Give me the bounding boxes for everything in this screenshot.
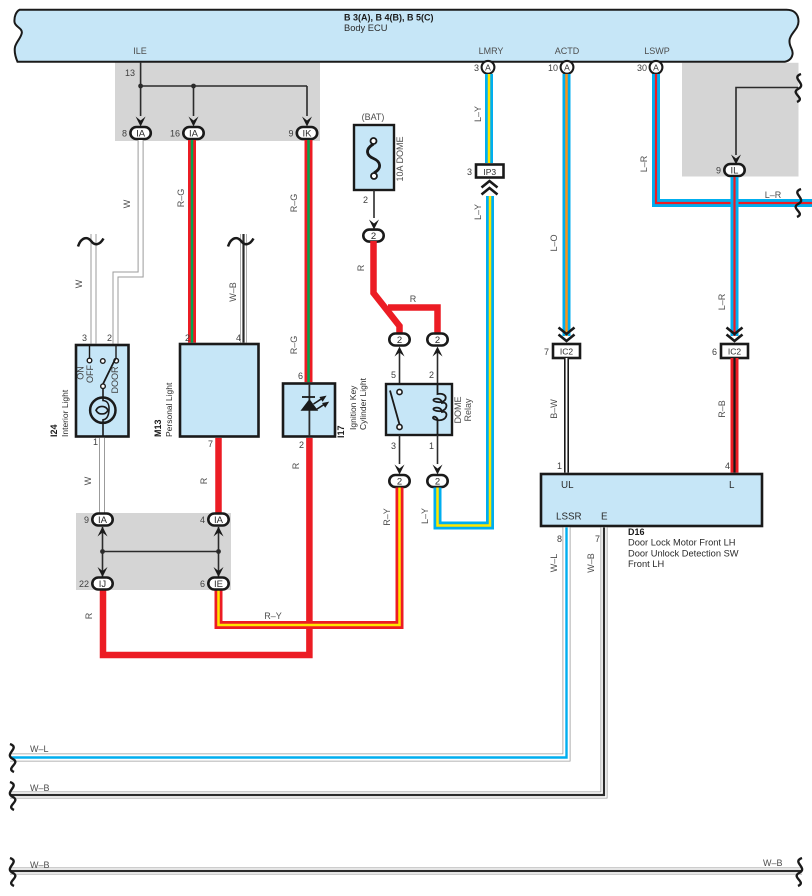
svg-text:7: 7 xyxy=(208,439,213,449)
junction block shading bottom-left xyxy=(76,513,231,590)
thick wire R from fuse to relay connectors xyxy=(374,241,400,333)
svg-text:22: 22 xyxy=(79,579,89,589)
wire ILE bus xyxy=(141,62,307,116)
svg-text:10: 10 xyxy=(548,63,558,73)
connector 2 relay pin3 xyxy=(389,475,409,487)
svg-text:W–L: W–L xyxy=(549,554,559,573)
svg-text:L–R: L–R xyxy=(765,190,782,200)
svg-text:A: A xyxy=(485,63,491,73)
svg-text:16: 16 xyxy=(170,129,180,139)
chevron into IC2(7) xyxy=(559,328,575,342)
wire B-W IC2 to D16 pin1 xyxy=(564,358,569,473)
svg-text:L–O: L–O xyxy=(549,234,559,251)
svg-text:Cylinder Light: Cylinder Light xyxy=(358,377,368,430)
svg-text:W–B: W–B xyxy=(30,860,50,870)
svg-text:13: 13 xyxy=(125,68,135,78)
connector IP3 xyxy=(476,165,504,178)
relay switch contacts xyxy=(397,389,402,394)
connector 2 below fuse xyxy=(363,230,383,242)
svg-text:I17: I17 xyxy=(336,425,346,438)
svg-text:IC2: IC2 xyxy=(560,347,574,357)
svg-text:R–Y: R–Y xyxy=(382,508,392,526)
Body ECU band xyxy=(14,10,798,62)
svg-text:7: 7 xyxy=(544,347,549,357)
M13 personal light xyxy=(180,344,259,437)
svg-text:OFF: OFF xyxy=(85,365,95,383)
svg-text:L–R: L–R xyxy=(639,155,649,172)
svg-text:D16: D16 xyxy=(628,527,645,537)
svg-text:2: 2 xyxy=(299,440,304,450)
break symbol top right xyxy=(796,74,801,102)
svg-text:2: 2 xyxy=(397,476,402,487)
svg-text:1: 1 xyxy=(429,441,434,451)
svg-text:ACTD: ACTD xyxy=(555,46,580,56)
svg-text:A: A xyxy=(564,63,570,73)
thick wire R from M13 pin7 to IA(4) xyxy=(215,438,222,514)
svg-text:2: 2 xyxy=(363,195,368,205)
svg-text:ILE: ILE xyxy=(133,46,147,56)
connector IC2 pin 7 xyxy=(553,344,580,358)
fuse element symbol xyxy=(367,144,379,173)
svg-text:2: 2 xyxy=(107,333,112,343)
svg-text:IA: IA xyxy=(98,515,108,526)
svg-text:R–Y: R–Y xyxy=(264,611,282,621)
connector IE pin 6 xyxy=(208,578,228,590)
connector IA pin 16 xyxy=(183,127,203,139)
svg-text:7: 7 xyxy=(595,534,600,544)
svg-text:Body ECU: Body ECU xyxy=(344,23,387,33)
svg-text:8: 8 xyxy=(557,534,562,544)
svg-text:2: 2 xyxy=(185,333,190,343)
svg-text:A: A xyxy=(653,63,659,73)
svg-text:2: 2 xyxy=(429,370,434,380)
svg-text:10A DOME: 10A DOME xyxy=(395,136,405,181)
I24 interior light switch xyxy=(76,345,129,437)
connector IK pin 9 xyxy=(297,127,317,139)
connector IA pin 9 xyxy=(92,514,112,526)
svg-text:6: 6 xyxy=(712,347,717,357)
connector IC2 pin 6 xyxy=(721,344,748,358)
connector 2 relay pin2 xyxy=(427,334,447,346)
svg-text:IL: IL xyxy=(731,166,739,177)
svg-text:W–B: W–B xyxy=(763,858,783,868)
svg-text:3: 3 xyxy=(391,441,396,451)
wire R-G from IK9 to I17 pin6 xyxy=(305,140,313,382)
D16 door lock motor xyxy=(541,474,762,526)
chevron into IP3 xyxy=(482,181,498,195)
relay DOME xyxy=(386,384,452,435)
svg-text:DOME: DOME xyxy=(453,397,463,424)
break symbol bottom left xyxy=(10,858,15,886)
svg-text:3: 3 xyxy=(474,63,479,73)
svg-text:L–Y: L–Y xyxy=(473,106,483,122)
svg-text:R–G: R–G xyxy=(289,194,299,213)
LED symbol I17 xyxy=(308,384,310,437)
svg-text:LMRY: LMRY xyxy=(479,46,504,56)
I17 ignition key cylinder light xyxy=(283,384,335,437)
svg-text:UL: UL xyxy=(561,480,574,491)
wire W into I24 pin3 xyxy=(91,234,97,344)
wire W-B into M13 pin4 xyxy=(240,234,247,343)
svg-text:W: W xyxy=(83,476,93,485)
svg-text:2: 2 xyxy=(435,476,440,487)
connector IL pin 9 xyxy=(724,164,744,176)
svg-text:Door Unlock Detection SW: Door Unlock Detection SW xyxy=(628,548,739,558)
svg-text:4: 4 xyxy=(236,333,241,343)
svg-text:R: R xyxy=(356,264,366,271)
connector 2 relay pin1 xyxy=(427,475,447,487)
svg-text:LSWP: LSWP xyxy=(644,46,670,56)
svg-text:Relay: Relay xyxy=(463,398,473,422)
svg-text:IC2: IC2 xyxy=(728,347,742,357)
wire W-B from D16 pin7 to left edge xyxy=(10,527,604,795)
svg-text:Interior Light: Interior Light xyxy=(60,389,70,437)
svg-text:IP3: IP3 xyxy=(483,167,496,177)
svg-text:8: 8 xyxy=(122,129,127,139)
junction block shading top-right xyxy=(682,63,799,177)
wire W-L from D16 pin8 to left edge xyxy=(10,527,567,757)
svg-text:IA: IA xyxy=(189,129,199,140)
svg-text:R: R xyxy=(84,612,94,619)
svg-text:9: 9 xyxy=(716,166,721,176)
break symbol L-R right edge xyxy=(796,189,801,217)
svg-text:Front LH: Front LH xyxy=(628,559,664,569)
svg-text:3: 3 xyxy=(467,167,472,177)
arrow into IA(16) xyxy=(189,117,199,127)
I24 switch contacts ON/OFF/DOOR xyxy=(90,345,117,359)
svg-text:LSSR: LSSR xyxy=(556,512,582,523)
svg-text:2: 2 xyxy=(435,335,440,346)
connector IA pin 8 xyxy=(130,127,150,139)
wire W from I24 pin1 to IA(9) xyxy=(99,438,105,514)
break symbol W-L xyxy=(10,744,15,772)
svg-text:R–G: R–G xyxy=(289,336,299,355)
svg-text:6: 6 xyxy=(298,371,303,381)
svg-text:1: 1 xyxy=(557,461,562,471)
svg-text:E: E xyxy=(601,512,608,523)
svg-text:(BAT): (BAT) xyxy=(362,112,385,122)
wire L-Y from relay pin1 to IP3 xyxy=(438,196,491,526)
svg-text:W–B: W–B xyxy=(228,282,238,302)
wire inside right junction block xyxy=(736,88,798,156)
svg-text:W–B: W–B xyxy=(30,783,50,793)
svg-text:6: 6 xyxy=(200,579,205,589)
wire W from IA8 to I24 pin2 xyxy=(116,140,141,344)
svg-text:W–B: W–B xyxy=(586,553,596,573)
svg-text:IA: IA xyxy=(136,129,146,140)
svg-text:2: 2 xyxy=(371,231,376,242)
svg-text:IK: IK xyxy=(303,129,313,140)
wire L-O ACTD to IC2 xyxy=(563,74,571,336)
svg-text:W–L: W–L xyxy=(30,744,49,754)
svg-text:R–B: R–B xyxy=(717,400,727,418)
svg-text:L–Y: L–Y xyxy=(473,204,483,220)
junction block shading top-left xyxy=(115,62,320,141)
svg-text:Personal Light: Personal Light xyxy=(164,382,174,437)
svg-text:I24: I24 xyxy=(49,424,59,437)
svg-text:M13: M13 xyxy=(153,419,163,437)
break symbol on W xyxy=(78,238,104,246)
svg-text:R: R xyxy=(410,294,417,304)
svg-text:R: R xyxy=(199,477,209,484)
break symbol bottom right xyxy=(797,858,802,886)
arrow into IK(9) xyxy=(302,117,312,127)
relay pin stems top xyxy=(400,352,438,384)
svg-text:B 3(A), B 4(B), B 5(C): B 3(A), B 4(B), B 5(C) xyxy=(344,13,434,23)
thick wire R from I17 pin2 down-left to IJ xyxy=(103,438,309,655)
connector 2 relay pin5 xyxy=(389,334,409,346)
svg-text:2: 2 xyxy=(397,335,402,346)
svg-text:W: W xyxy=(74,279,84,288)
I24 bulb xyxy=(103,389,109,437)
svg-text:W: W xyxy=(122,199,132,208)
svg-text:IJ: IJ xyxy=(99,579,107,590)
connector A LSWP xyxy=(650,61,663,74)
svg-text:DOOR: DOOR xyxy=(110,366,120,394)
svg-text:IE: IE xyxy=(214,579,223,590)
svg-text:ON: ON xyxy=(76,366,86,380)
svg-text:B–W: B–W xyxy=(549,399,559,419)
svg-text:IA: IA xyxy=(214,515,224,526)
svg-text:5: 5 xyxy=(391,370,396,380)
wire R-Y from relay pin3 to IE xyxy=(219,488,400,626)
svg-text:4: 4 xyxy=(725,461,730,471)
wire L-R LSWP to right edge xyxy=(656,74,812,203)
wire L-R from IL to IC2 pin6 xyxy=(731,177,739,336)
svg-text:L–R: L–R xyxy=(717,293,727,310)
svg-text:R–G: R–G xyxy=(176,189,186,208)
relay pin stems bottom xyxy=(400,435,438,464)
svg-text:L–Y: L–Y xyxy=(420,508,430,524)
connector A ACTD xyxy=(561,61,574,74)
connector A LMRY xyxy=(482,61,495,74)
svg-text:Door Lock Motor Front LH: Door Lock Motor Front LH xyxy=(628,538,735,548)
arrow into IA(8) xyxy=(136,117,146,127)
connector IA pin 4 xyxy=(208,514,228,526)
svg-text:30: 30 xyxy=(637,63,647,73)
svg-text:1: 1 xyxy=(93,437,98,447)
svg-text:3: 3 xyxy=(82,333,87,343)
svg-text:4: 4 xyxy=(200,515,205,525)
svg-text:9: 9 xyxy=(84,515,89,525)
break symbol on W-B xyxy=(228,238,254,246)
connector IJ pin 22 xyxy=(92,578,112,590)
svg-text:R: R xyxy=(291,462,301,469)
wire L-Y LMRY to IP3 xyxy=(485,74,493,163)
chevron into IC2(6) xyxy=(727,328,743,342)
break symbol W-B xyxy=(10,782,15,810)
wire R-G from IA16 to M13 pin2 xyxy=(188,140,196,343)
bottom wire W-B across page xyxy=(10,868,802,875)
wire R-B IC2 to D16 pin4 xyxy=(731,358,739,473)
bottom junction box arrows/ovals xyxy=(103,527,219,577)
relay coil xyxy=(433,384,446,435)
svg-text:Ignition Key: Ignition Key xyxy=(348,385,358,430)
svg-text:9: 9 xyxy=(288,129,293,139)
svg-text:L: L xyxy=(729,480,735,491)
